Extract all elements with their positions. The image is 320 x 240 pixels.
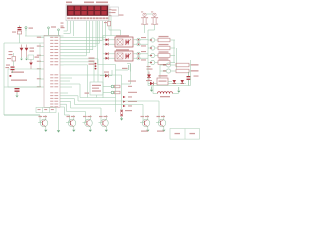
- title block table: [170, 129, 200, 140]
- optocoupler LED pair OK1: [103, 38, 115, 45]
- wire bus display to IC1: [64, 21, 106, 56]
- transistor pair right of K2: [133, 51, 148, 61]
- supply box SV1: [110, 7, 124, 16]
- capacitor C1 top left: [12, 26, 22, 44]
- transistor Q2: [148, 38, 158, 42]
- wire bus right column: [147, 34, 149, 66]
- IC1 right pins and labels: [50, 37, 63, 108]
- resistor R8: [158, 58, 175, 64]
- transistor Q3: [148, 46, 158, 50]
- wire bus middle column: [102, 36, 104, 99]
- ground symbol power: [177, 87, 180, 94]
- capacitor C2 left: [6, 67, 15, 74]
- capacitor C5: [187, 60, 199, 86]
- resistor R5: [158, 36, 175, 42]
- diode row D10: [123, 105, 132, 107]
- microcontroller IC1 box: [44, 35, 60, 107]
- component box G1: [85, 82, 104, 95]
- diode D2 left: [29, 60, 33, 70]
- diode D4: [173, 80, 177, 83]
- transistor pair right of K1: [133, 37, 148, 47]
- connector X1: [120, 110, 132, 121]
- wire display pins left to IC1 top: [64, 21, 74, 36]
- display DIS1 pin labels: [67, 17, 108, 19]
- wire mid verticals: [80, 75, 122, 111]
- wire VCC rail above IC1: [25, 31, 64, 36]
- 7-segment display DIS1 body: [66, 5, 109, 21]
- 7-segment display DIS1 label: [66, 2, 108, 4]
- ground symbol below D3: [150, 87, 153, 92]
- transistor Q4: [148, 53, 158, 57]
- voltage regulator IC2: [157, 75, 168, 85]
- LED2: [25, 45, 34, 58]
- wire power rail: [148, 66, 191, 86]
- pushbutton S2: [103, 85, 132, 88]
- optocoupler LED pair OK2: [103, 52, 115, 59]
- wires IC1 to box G1: [64, 75, 122, 98]
- diode D3: [148, 82, 157, 85]
- diode row D9: [123, 100, 137, 102]
- inductor L1: [153, 86, 177, 98]
- display right pin labels: [109, 9, 112, 16]
- diode D5: [181, 80, 185, 83]
- transistor Q6: [160, 63, 176, 67]
- resistor R10: [176, 69, 199, 73]
- transistor labels below right pair: [141, 131, 164, 132]
- wire drops from IC1 bottom: [64, 93, 160, 123]
- resistor R6: [158, 44, 175, 50]
- diode row D8: [123, 96, 132, 98]
- crystal Q1: [15, 88, 20, 98]
- diode D6: [100, 70, 112, 77]
- resistor R16 with pad: [148, 13, 158, 34]
- transistor Q5: [148, 60, 158, 64]
- ground marks below LEDs: [20, 57, 28, 60]
- resistor R7: [158, 51, 175, 57]
- frame box left: [4, 43, 40, 115]
- connector block above T1: [36, 108, 56, 113]
- IC1 top decorations: [48, 26, 65, 35]
- pushbutton S3: [103, 91, 137, 94]
- wire mid link: [98, 21, 129, 112]
- switch S1 box: [28, 55, 39, 60]
- IC1 left pins and labels: [37, 37, 44, 88]
- relay K2 box: [115, 49, 133, 61]
- connector header X2 mid: [95, 63, 97, 70]
- wire bottom bus: [4, 115, 42, 123]
- left column labels: [6, 51, 13, 66]
- transistor Q7: [160, 69, 176, 73]
- LED1: [20, 45, 24, 58]
- wire to row drivers: [147, 65, 161, 78]
- VCC supply symbol: [25, 27, 33, 32]
- diode D7 right: [146, 72, 152, 82]
- transistor T1: [38, 115, 48, 132]
- resistor R17 below display: [104, 16, 111, 30]
- pull-up pin labels: [141, 11, 153, 14]
- wire driver drops: [174, 40, 177, 70]
- net labels left of bus: [89, 58, 95, 65]
- transistor T2: [66, 115, 76, 132]
- wire bundle IC1 rows to mid column: [64, 59, 99, 98]
- transistor T4: [99, 115, 109, 132]
- labels below display left: [61, 23, 64, 27]
- MOSFET T7 symbol: [122, 64, 137, 85]
- inner box with text: [8, 69, 40, 87]
- ground symbol middle: [57, 113, 60, 133]
- wire display pins to right column: [103, 16, 121, 36]
- resistor R1 left: [7, 53, 16, 66]
- wire horizontal left: [4, 42, 44, 44]
- transistor T5: [140, 115, 150, 132]
- transistor T3: [83, 115, 93, 132]
- transistor T6: [156, 115, 166, 132]
- resistor R15 with pad: [141, 13, 153, 33]
- relay K1 box: [115, 35, 133, 47]
- resistor R9: [176, 63, 199, 67]
